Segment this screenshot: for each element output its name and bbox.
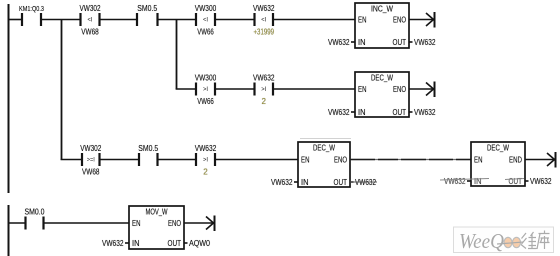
left power rail (lower segment) <box>8 205 10 256</box>
svg-text:VW632: VW632 <box>414 38 436 47</box>
svg-text:2: 2 <box>262 97 267 106</box>
svg-text:EN: EN <box>132 219 141 228</box>
arrow terminator (rung2) <box>426 82 435 98</box>
wire rung2: DEC_W ENO to terminator <box>409 88 433 90</box>
svg-text:IN: IN <box>301 178 309 187</box>
svg-text:2: 2 <box>203 168 208 177</box>
svg-text:VW632: VW632 <box>414 108 436 117</box>
arrow terminator (rung4) <box>206 216 215 232</box>
svg-text:EN: EN <box>358 16 367 25</box>
wire rung1: SM0.5 to VW300 compare <box>158 19 197 21</box>
wire rung4: rail to SM0.0 contact <box>8 222 26 224</box>
ghost artifact line above U3 <box>300 138 351 140</box>
svg-text:IN: IN <box>132 239 140 248</box>
svg-text:VW68: VW68 <box>82 168 100 177</box>
svg-text:OUT: OUT <box>168 239 182 248</box>
contact KM1:Q0.3 <box>19 4 44 26</box>
svg-text:>I: >I <box>261 86 266 93</box>
svg-text:VW632: VW632 <box>328 108 350 117</box>
watermark WeeQoo weiku logo box <box>454 227 554 253</box>
svg-text:VW632: VW632 <box>271 178 293 187</box>
compare contact VW632 &lt;I +31999 (rung1) <box>253 4 275 37</box>
contact SM0.5 (rung3) <box>138 144 158 166</box>
left power rail (upper segment) <box>8 4 10 193</box>
hanzi ku <box>537 231 550 250</box>
svg-text:VW632: VW632 <box>328 38 350 47</box>
wire rung3: branch to VW302 compare <box>61 159 82 161</box>
hanzi wei <box>521 232 537 249</box>
box INC_W U1 <box>328 3 436 48</box>
svg-text:SM0.5: SM0.5 <box>137 4 157 13</box>
node J2 branch wire down to rung2 <box>176 20 178 90</box>
compare contact VW632 &gt;I 2 (rung3) <box>195 144 217 177</box>
svg-text:WeeQ: WeeQ <box>459 229 504 253</box>
wire rung3: U3 ENO to U4 EN (faded broken) <box>350 159 471 161</box>
svg-text:EN: EN <box>358 85 367 94</box>
svg-text:ENO: ENO <box>168 219 181 228</box>
wire rung1: INC_W ENO to terminator <box>409 19 433 21</box>
svg-text:OUT: OUT <box>393 108 407 117</box>
svg-text:VW68: VW68 <box>81 28 99 37</box>
svg-text:VW300: VW300 <box>195 74 217 83</box>
svg-text:EN: EN <box>301 156 310 165</box>
svg-text:IN: IN <box>358 108 366 117</box>
svg-text:ENO: ENO <box>393 16 406 25</box>
wire rung3: U4 END to terminator <box>525 159 554 161</box>
wire rung1: VW302 to SM0.5 <box>100 19 138 21</box>
svg-text:VW632: VW632 <box>195 144 217 153</box>
wire rung4: MOV_W ENO to terminator <box>184 222 213 224</box>
svg-text:<I: <I <box>203 17 208 24</box>
svg-text:VW66: VW66 <box>197 97 214 106</box>
wire rung3: VW302 to SM0.5 <box>100 159 140 161</box>
wire rung1: rail to KM1 contact <box>8 19 22 21</box>
svg-text:INC_W: INC_W <box>371 5 393 14</box>
contact SM0.0 <box>25 208 45 230</box>
svg-text:VW632: VW632 <box>253 4 275 13</box>
box DEC_W U3 <box>271 142 376 187</box>
svg-text:DEC_W: DEC_W <box>371 74 393 83</box>
svg-text:MOV_W: MOV_W <box>146 208 168 217</box>
compare contact VW300 &gt;I VW66 (rung2) <box>195 74 217 107</box>
contact SM0.5 (rung1) <box>137 4 158 26</box>
svg-text:VW632: VW632 <box>530 177 552 186</box>
svg-text:<I: <I <box>261 17 266 24</box>
wire rung1: KM1 to VW302 compare <box>41 19 81 21</box>
compare contact VW300 &lt;I VW66 (rung1) <box>195 4 217 37</box>
box DEC_W U2 <box>328 72 436 117</box>
svg-text:>=I: >=I <box>87 157 95 164</box>
svg-text:VW632: VW632 <box>253 74 275 83</box>
svg-text:ENO: ENO <box>334 156 347 165</box>
wire rung3: VW632 to DEC_W box 1 <box>215 159 298 161</box>
strike line over U4 IN operand <box>440 179 489 181</box>
strike line over U4 OUT pin <box>505 179 524 180</box>
wire rung1: VW300 to VW632 compare <box>215 19 255 21</box>
strike line over U3 OUT operand <box>350 181 377 183</box>
svg-text:SM0.5: SM0.5 <box>138 144 158 153</box>
wire rung1: VW632 to INC_W box <box>273 19 355 21</box>
svg-text:OUT: OUT <box>393 38 407 47</box>
wire rung3: SM0.5 to VW632 compare <box>158 159 197 161</box>
svg-text:VW302: VW302 <box>80 144 101 153</box>
svg-text:DEC_W: DEC_W <box>313 144 335 153</box>
svg-text:OUT: OUT <box>334 178 348 187</box>
arrow terminator (rung3) <box>547 152 556 168</box>
svg-text:VW632: VW632 <box>444 177 466 186</box>
svg-text:AQW0: AQW0 <box>189 239 210 248</box>
box MOV_W U5 <box>102 206 210 249</box>
svg-text:>I: >I <box>203 157 208 164</box>
box DEC_W U4 <box>444 142 552 186</box>
compare contact VW632 &gt;I 2 (rung2) <box>253 74 275 107</box>
svg-text:KM1:Q0.3: KM1:Q0.3 <box>19 4 44 13</box>
svg-text:VW66: VW66 <box>197 28 214 37</box>
svg-text:>I: >I <box>203 86 208 93</box>
svg-text:END: END <box>509 156 522 165</box>
svg-text:VW632: VW632 <box>102 239 124 248</box>
wire rung2: VW300 to VW632 compare <box>215 88 255 90</box>
svg-text:IN: IN <box>358 38 366 47</box>
svg-text:VW302: VW302 <box>80 4 101 13</box>
svg-text:SM0.0: SM0.0 <box>25 208 45 217</box>
node J1 branch wire down to rung3 <box>61 20 63 161</box>
svg-text:<I: <I <box>88 17 93 24</box>
wire rung2: branch to VW300 compare <box>176 88 196 90</box>
arrow terminator (rung1) <box>426 12 435 28</box>
wire rung4: SM0.0 to MOV_W box <box>44 222 130 224</box>
compare contact VW302 &lt;I VW68 <box>80 4 101 37</box>
compare contact VW302 &gt;=I VW68 (rung3) <box>80 144 101 177</box>
svg-text:DEC_W: DEC_W <box>487 144 509 153</box>
svg-text:VW300: VW300 <box>195 4 217 13</box>
svg-text:ENO: ENO <box>393 85 406 94</box>
svg-text:+31999: +31999 <box>254 28 275 37</box>
svg-text:EN: EN <box>474 156 483 165</box>
wire rung2: VW632 to DEC_W box <box>273 88 355 90</box>
